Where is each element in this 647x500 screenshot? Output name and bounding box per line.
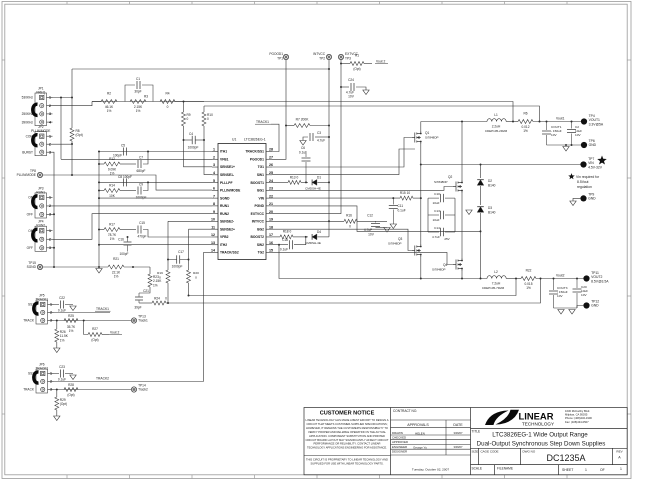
svg-text:RUN1: RUN1: [220, 204, 229, 208]
svg-text:R20: R20: [193, 271, 199, 275]
ground symbol: [563, 147, 569, 152]
ground symbol: [570, 201, 576, 206]
svg-text:CUSTOMER NOTICE: CUSTOMER NOTICE: [320, 411, 375, 417]
capacitor C24: [350, 83, 352, 91]
svg-text:TRACK/SS2: TRACK/SS2: [220, 251, 239, 255]
junction: [480, 278, 482, 280]
svg-text:SUPPLIED FOR USE WITH LINEAR T: SUPPLIED FOR USE WITH LINEAR TECHNOLOGY …: [311, 462, 384, 466]
wire JP5 pin3 row: [54, 320, 132, 322]
svg-text:DC1235A: DC1235A: [546, 453, 585, 463]
wire JP3 pin3 to sgnd bus: [53, 213, 55, 215]
resistor R17: [104, 228, 120, 232]
svg-text:SENSE2-: SENSE2-: [220, 220, 234, 224]
svg-text:TRACK: TRACK: [23, 319, 35, 323]
U1 pin 13 stub: [212, 244, 218, 246]
svg-text:(Opt): (Opt): [60, 402, 67, 406]
svg-text:APPROVED: APPROVED: [392, 440, 408, 444]
junction: [188, 295, 190, 297]
svg-text:CDEP105-7R2M: CDEP105-7R2M: [482, 286, 505, 290]
resistor R29: [55, 397, 59, 410]
svg-text:GND: GND: [589, 143, 597, 147]
junction: [420, 197, 422, 199]
diode D3: [477, 207, 484, 213]
capacitor C13: [428, 214, 439, 216]
wire ITH2 pin13: [99, 244, 212, 246]
connector JP3 RUN1: [35, 193, 47, 218]
wire: [310, 125, 329, 127]
wire x188 vertical: [188, 229, 190, 270]
svg-text:PLLLPF: PLLLPF: [220, 181, 232, 185]
capacitor C15: [137, 226, 139, 234]
resistor R12: [104, 162, 120, 166]
wire C17 left: [167, 259, 169, 261]
svg-text:U1: U1: [232, 138, 236, 142]
svg-text:Q4: Q4: [443, 263, 447, 267]
customer notice rule: [304, 455, 391, 457]
junction: [278, 244, 280, 246]
test point TP9 GND: [580, 195, 586, 201]
capacitor C17: [176, 255, 178, 263]
svg-text:C4: C4: [189, 132, 193, 136]
junction: [480, 230, 482, 232]
junction: [98, 266, 100, 268]
wire C4 right: [195, 139, 204, 141]
svg-text:BG2: BG2: [257, 227, 264, 231]
wire: [317, 236, 329, 238]
capacitor COUT1 plates: [542, 130, 551, 132]
svg-text:LTC3826EG-1: LTC3826EG-1: [244, 138, 266, 142]
junction: [98, 181, 100, 183]
capacitor C10 plates: [440, 194, 442, 202]
svg-text:1%: 1%: [523, 129, 528, 133]
test point TP12 GND: [583, 302, 589, 308]
wire: [480, 186, 482, 205]
svg-text:(Opt): (Opt): [353, 67, 360, 71]
svg-text:PGND: PGND: [254, 204, 264, 208]
wire TRACK2 row: [54, 381, 204, 383]
wire C24 row: [341, 86, 349, 88]
wire R19 bottom: [167, 283, 169, 303]
resistor R28: [64, 388, 78, 392]
connector JP1 FREQ: [35, 93, 47, 126]
svg-text:100pF: 100pF: [119, 252, 128, 256]
resistor R6: [518, 120, 533, 124]
inductor L1: [487, 119, 506, 122]
wire R20 bottom: [188, 283, 190, 296]
resistor R27: [88, 333, 102, 337]
junction: [98, 244, 100, 246]
U1 pin 17 stub: [266, 236, 272, 238]
svg-text:PGOOD1: PGOOD1: [269, 52, 283, 56]
capacitor C23: [54, 373, 60, 375]
resistor R14: [104, 189, 120, 193]
wire ITH1 pin1: [99, 151, 212, 153]
wire C17 taps: [168, 259, 177, 261]
svg-text:0.1uF: 0.1uF: [398, 209, 406, 213]
test point TP7 VIN: [580, 161, 586, 167]
resistor R18: [280, 235, 293, 239]
wire ch2 gnd row: [554, 307, 578, 309]
svg-text:TRACK: TRACK: [23, 388, 35, 392]
ground symbol: [569, 310, 575, 315]
svg-text:C3: C3: [317, 131, 321, 135]
svg-text:D1: D1: [317, 176, 321, 180]
svg-text:CMDSH-4E: CMDSH-4E: [305, 187, 321, 191]
connector JP4 RUN2: [35, 226, 47, 251]
wire D2 top: [480, 165, 482, 179]
svg-text:9: 9: [213, 210, 215, 214]
resistor R25: [64, 319, 78, 323]
svg-text:GND: GND: [588, 197, 596, 201]
svg-text:4.5V-32V: 4.5V-32V: [588, 165, 603, 169]
capacitor C18: [289, 240, 291, 249]
svg-text:SENSE2+: SENSE2+: [220, 227, 235, 231]
svg-text:TECHNOLOGY: TECHNOLOGY: [522, 421, 555, 426]
connector JP6 TRACK2: [36, 369, 48, 393]
svg-text:0.1uF: 0.1uF: [58, 309, 66, 313]
capacitor C3: [309, 133, 311, 141]
wire SW2 down: [279, 245, 421, 279]
wire TP9 gnd: [573, 198, 580, 201]
op-amp U1 LTC3826EG-1 body: [218, 144, 266, 260]
svg-text:4: 4: [213, 171, 215, 175]
svg-text:L1: L1: [494, 113, 498, 117]
svg-text:PLLIN/MODE: PLLIN/MODE: [31, 129, 50, 133]
capacitor C2: [571, 122, 573, 129]
junction: [71, 143, 73, 145]
wire: [175, 101, 204, 103]
resistor R7: [294, 124, 310, 128]
ground symbol: [96, 269, 102, 274]
svg-text:C24: C24: [348, 78, 354, 82]
ground symbol: [466, 210, 472, 215]
svg-text:39pF: 39pF: [134, 306, 141, 310]
svg-text:TP1: TP1: [277, 57, 283, 61]
wire cap right bus: [454, 198, 456, 232]
svg-text:LINEAR: LINEAR: [519, 412, 555, 422]
wire R10 bottom to SENSE1-: [204, 126, 212, 175]
wire R8 bottom: [71, 141, 73, 175]
svg-text:0: 0: [187, 117, 189, 121]
junction: [420, 164, 422, 166]
wire SW1 node to L1: [421, 121, 487, 123]
U1 pin 10 stub: [212, 220, 218, 222]
svg-text:10K: 10K: [109, 194, 116, 198]
svg-text:0.1uF: 0.1uF: [299, 151, 307, 155]
wire SENSE1- rail: [204, 106, 540, 122]
junction: [565, 144, 567, 146]
wire comp row1: [99, 163, 104, 165]
svg-text:TRACK1: TRACK1: [35, 298, 48, 302]
svg-text:30pF: 30pF: [134, 90, 141, 94]
wire: [533, 121, 581, 123]
svg-text:3/09/07: 3/09/07: [454, 445, 463, 449]
svg-text:EXTVCC: EXTVCC: [251, 212, 265, 216]
wire VIN row: [421, 164, 581, 166]
wire cap left bus: [427, 198, 429, 232]
wire SW2 node to L2: [421, 278, 487, 280]
diode D2: [477, 180, 484, 186]
transistor Q3: [412, 244, 421, 257]
svg-text:0: 0: [195, 276, 197, 280]
star symbol: [597, 156, 607, 165]
wire R26 top: [56, 321, 58, 330]
wire RUN1 to pin8: [53, 205, 213, 207]
svg-text:TRACK2: TRACK2: [96, 377, 109, 381]
svg-text:BOOST1: BOOST1: [250, 181, 264, 185]
wire INTVCC top rail: [72, 68, 329, 70]
svg-text:1000pF: 1000pF: [172, 265, 183, 269]
wire: [286, 125, 294, 127]
wire: [420, 257, 422, 279]
junction: [328, 220, 330, 222]
svg-text:Dual-Output Synchronous Step D: Dual-Output Synchronous Step Down Suppli…: [477, 441, 606, 448]
svg-text:RUN2: RUN2: [36, 224, 45, 228]
U1 pin 22 stub: [266, 197, 272, 199]
junction: [571, 121, 573, 123]
capacitor C20 plates: [573, 288, 582, 290]
svg-text:BG1: BG1: [257, 189, 264, 193]
wire INTVCC vertical: [328, 60, 330, 237]
wire EXTVCC vertical: [272, 60, 341, 214]
capacitor C1: [136, 81, 138, 89]
junction: [512, 121, 514, 123]
svg-text:C17: C17: [178, 250, 184, 254]
svg-text:Vout2: Vout2: [556, 274, 565, 278]
capacitor C8: [123, 178, 125, 186]
svg-text:22: 22: [269, 194, 273, 198]
capacitor COUT3 plates: [549, 290, 558, 292]
junction: [98, 163, 100, 165]
wire JP2 pin3 BURST: [53, 152, 55, 267]
svg-text:10V: 10V: [368, 233, 375, 237]
svg-text:L2: L2: [494, 270, 498, 274]
svg-text:Track2: Track2: [138, 387, 148, 391]
svg-text:ENGINEER: ENGINEER: [392, 445, 407, 449]
wire R23 top: [149, 267, 151, 274]
wire R9 top: [183, 102, 185, 113]
junction: [480, 164, 482, 166]
svg-text:TRACK1: TRACK1: [256, 120, 269, 124]
wire TG2: [272, 252, 453, 264]
U1 pin 27 stub: [266, 158, 272, 160]
junction: [127, 236, 129, 238]
svg-text:4.7uF: 4.7uF: [432, 235, 440, 239]
svg-text:2: 2: [213, 155, 215, 159]
junction: [461, 278, 463, 280]
svg-text:R18 0: R18 0: [283, 230, 292, 234]
svg-text:R7 200K: R7 200K: [296, 118, 310, 122]
resistor R24: [152, 301, 166, 305]
wire SENSE2 kelvin low: [166, 279, 541, 304]
transistor Q4: [453, 258, 462, 271]
wire R23 bottom: [139, 287, 150, 293]
wire x168 vertical: [167, 221, 169, 270]
wire: [120, 190, 136, 192]
svg-text:TITLE: TITLE: [472, 430, 481, 434]
junction: [98, 197, 100, 199]
svg-text:C10: C10: [434, 192, 440, 196]
svg-text:CDEP105-2R2M: CDEP105-2R2M: [485, 129, 508, 133]
wire JP5 pin2: [54, 312, 111, 314]
svg-text:OFF: OFF: [27, 246, 33, 250]
U1 pin 7 stub: [212, 197, 218, 199]
junction: [340, 63, 342, 65]
wire: [120, 163, 136, 165]
svg-text:TP2: TP2: [319, 57, 325, 61]
svg-text:1%: 1%: [526, 286, 531, 290]
wire bus x462 top: [461, 122, 463, 181]
svg-text:C16: C16: [118, 238, 124, 242]
wire sgnd vertical bus: [98, 152, 100, 268]
junction: [546, 121, 548, 123]
svg-text:C18: C18: [282, 238, 288, 242]
junction: [328, 125, 330, 127]
junction: [576, 278, 578, 280]
capacitor C10: [428, 197, 439, 199]
connector JP2 PLLIN/MODE: [35, 132, 47, 156]
svg-text:1: 1: [585, 468, 587, 472]
svg-text:8: 8: [213, 202, 215, 206]
wire: [303, 137, 308, 141]
transistor Q2: [453, 180, 462, 193]
svg-text:Vout 2: Vout 2: [110, 331, 120, 335]
svg-text:Si7848DP: Si7848DP: [432, 268, 446, 272]
svg-text:0: 0: [207, 117, 209, 121]
resistor R1: [350, 62, 364, 66]
wire: [317, 181, 329, 183]
wire R27 branch: [84, 321, 88, 335]
junction: [60, 97, 62, 99]
junction: [305, 236, 307, 238]
capacitor C2 plates: [567, 129, 576, 131]
svg-text:1%: 1%: [110, 172, 115, 176]
U1 pin 8 stub: [212, 205, 218, 207]
svg-text:12: 12: [211, 233, 215, 237]
svg-text:TP3: TP3: [345, 57, 351, 61]
wire TG1: [272, 138, 412, 168]
wire TP8 to PLLIN/MODE pin6: [43, 175, 212, 190]
junction: [203, 139, 205, 141]
U1 pin 25 stub: [266, 174, 272, 176]
ground symbol: [54, 348, 60, 353]
svg-text:5: 5: [213, 179, 215, 183]
svg-text:DATE: DATE: [453, 423, 463, 427]
svg-text:INTVCC: INTVCC: [252, 220, 265, 224]
svg-text:470pF: 470pF: [137, 235, 146, 239]
contract no section: [391, 420, 471, 455]
svg-text:R24: R24: [154, 297, 160, 301]
svg-text:28: 28: [269, 148, 273, 152]
svg-text:11: 11: [211, 225, 215, 229]
capacitor C16: [127, 237, 129, 242]
ground symbol: [54, 416, 60, 421]
wire R29 bottom: [56, 410, 58, 416]
svg-text:Phone: (408)432-1900: Phone: (408)432-1900: [565, 416, 592, 420]
svg-text:Tuesday, October 02, 2007: Tuesday, October 02, 2007: [412, 468, 449, 472]
wire: [356, 87, 366, 90]
svg-text:BOOST2: BOOST2: [250, 235, 264, 239]
U1 pin 4 stub: [212, 174, 218, 176]
svg-text:SW2: SW2: [257, 243, 264, 247]
svg-text:APPROVALS: APPROVALS: [407, 423, 429, 427]
resistor R8: [70, 128, 74, 141]
svg-text:1%: 1%: [60, 338, 65, 342]
junction: [540, 278, 542, 280]
svg-text:7.2uH: 7.2uH: [492, 282, 501, 286]
resistor R2: [101, 100, 117, 104]
svg-text:1%: 1%: [107, 109, 112, 113]
svg-text:1000pF: 1000pF: [188, 146, 199, 150]
capacitor COUT3: [553, 279, 555, 291]
junction: [83, 320, 85, 322]
svg-text:TG2: TG2: [258, 251, 265, 255]
svg-text:2.2uH: 2.2uH: [492, 125, 501, 129]
junction: [53, 213, 55, 215]
U1 pin 18 stub: [266, 228, 272, 230]
svg-text:FILENAME: FILENAME: [497, 467, 513, 471]
junction: [328, 68, 330, 70]
wire VIN bus x420: [420, 122, 422, 132]
wire PLLLPF pin5: [99, 181, 212, 183]
svg-text:INTVCC: INTVCC: [313, 52, 326, 56]
svg-text:Si7848DP: Si7848DP: [388, 242, 402, 246]
U1 pin 19 stub: [266, 220, 272, 222]
wire: [143, 152, 148, 165]
svg-text:R28: R28: [68, 383, 74, 387]
junction: [53, 247, 55, 249]
wire BG2: [272, 229, 412, 250]
scale filename sheet row: [471, 465, 628, 475]
svg-text:LTC3826EG-1 Wide Output Rang: LTC3826EG-1 Wide Output Range: [492, 432, 588, 439]
svg-text:10V: 10V: [348, 95, 355, 99]
svg-text:R13 0: R13 0: [290, 176, 299, 180]
svg-text:21: 21: [269, 202, 273, 206]
svg-text:4.7uF: 4.7uF: [317, 139, 325, 143]
U1 pin 6 stub: [212, 189, 218, 191]
test point TP15 SGND: [37, 264, 42, 269]
junction: [305, 181, 307, 183]
wire R26 bottom: [56, 342, 58, 348]
svg-text:Q3: Q3: [398, 237, 402, 241]
svg-text:R4: R4: [165, 92, 169, 96]
svg-text:Vout1: Vout1: [556, 117, 565, 121]
svg-text:Track1: Track1: [138, 318, 148, 322]
svg-text:R2: R2: [107, 92, 111, 96]
svg-text:1%: 1%: [114, 275, 119, 279]
capacitor C12: [375, 221, 377, 222]
svg-text:R3: R3: [144, 95, 148, 99]
svg-text:R22: R22: [526, 269, 532, 273]
wire JP1 pin2: [53, 102, 93, 106]
svg-text:26: 26: [269, 163, 273, 167]
svg-text:DRAWN: DRAWN: [392, 431, 403, 435]
svg-text:16: 16: [269, 241, 273, 245]
svg-text:C13: C13: [434, 209, 440, 213]
svg-text:C6: C6: [301, 146, 305, 150]
junction: [98, 190, 100, 192]
transistor Q1: [412, 131, 421, 144]
svg-text:C12: C12: [367, 214, 373, 218]
svg-text:OFF: OFF: [27, 213, 33, 217]
wire: [420, 144, 422, 244]
inductor L2: [487, 276, 506, 279]
capacitor COUT1: [546, 122, 548, 131]
wire: [294, 237, 306, 245]
junction: [71, 97, 73, 99]
svg-text:10V: 10V: [581, 293, 587, 297]
junction: [571, 144, 573, 146]
